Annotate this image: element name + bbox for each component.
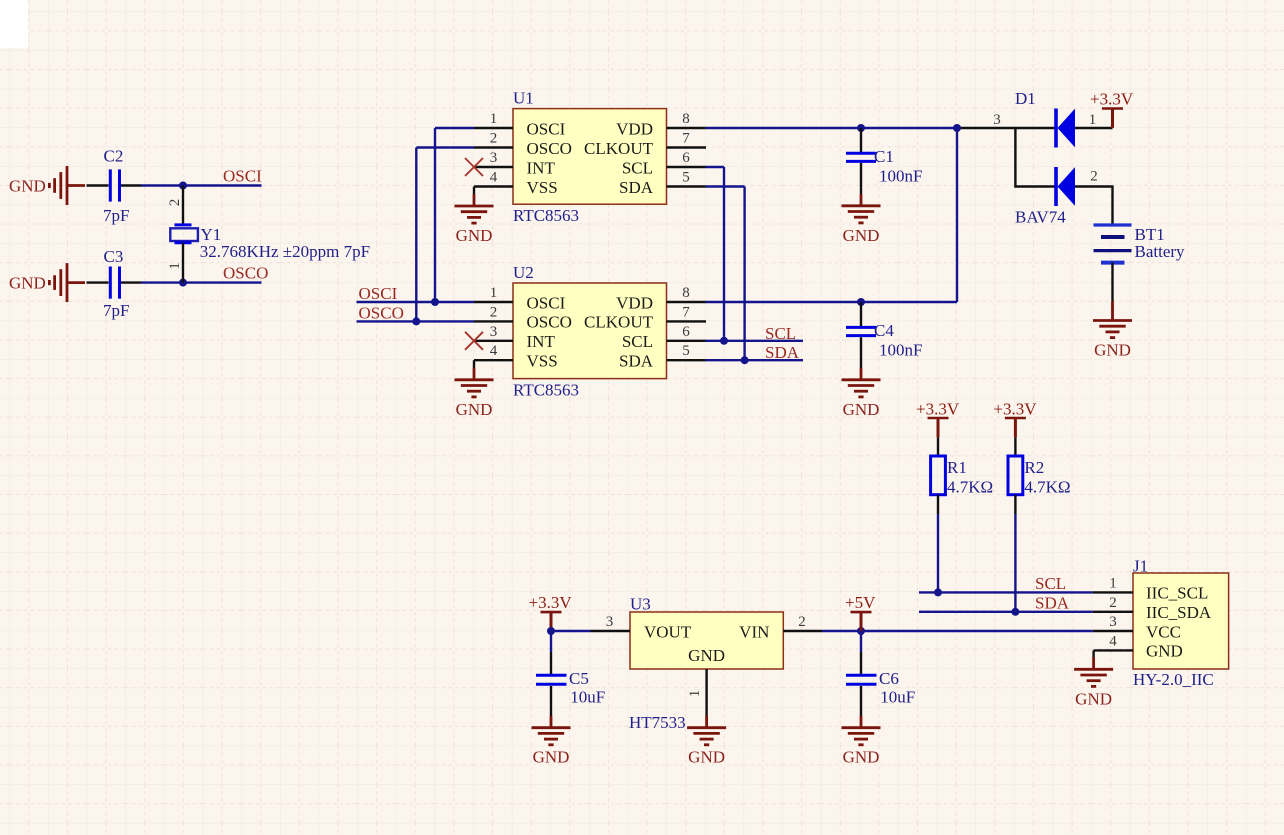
svg-text:HY-2.0_IIC: HY-2.0_IIC: [1133, 670, 1214, 689]
wire U1 pin1 to U2 OSCI: [435, 128, 474, 302]
svg-text:2: 2: [167, 199, 183, 207]
svg-text:R2: R2: [1024, 458, 1044, 477]
ground GND (BT1): [1093, 309, 1132, 360]
node junction crystal bottom: [179, 279, 187, 287]
capacitor C1: [846, 128, 922, 194]
diode D1a (top): [1056, 109, 1113, 148]
node junction C6/+5V: [857, 627, 865, 635]
svg-text:VDD: VDD: [616, 293, 653, 312]
svg-text:7: 7: [682, 131, 690, 147]
svg-text:32.768KHz ±20ppm 7pF: 32.768KHz ±20ppm 7pF: [200, 242, 370, 261]
ground GND (left of C3): [9, 263, 85, 302]
svg-text:OSCI: OSCI: [223, 167, 262, 186]
wire U2 SDA stub right: [706, 359, 804, 361]
capacitor C3: [87, 247, 142, 320]
svg-text:+3.3V: +3.3V: [993, 400, 1037, 419]
svg-text:OSCO: OSCO: [527, 313, 572, 332]
svg-text:INT: INT: [527, 158, 556, 177]
resistor R1: [931, 437, 994, 514]
svg-text:1: 1: [167, 262, 183, 270]
svg-text:OSCO: OSCO: [359, 303, 404, 322]
svg-text:U1: U1: [513, 89, 534, 108]
pin 2 U2 OSCO: [474, 304, 572, 331]
pin 7 U2 CLKOUT: [584, 304, 706, 331]
svg-text:IIC_SCL: IIC_SCL: [1146, 584, 1208, 603]
node junction U2 OSCO: [412, 317, 420, 325]
op-amp U1 body (RTC8563): [513, 89, 667, 226]
svg-text:SCL: SCL: [765, 324, 796, 343]
no-ERC cross U1 pin 3: [465, 158, 483, 176]
wire U2 OSCO: [357, 320, 475, 322]
pin 2 U1 OSCO: [474, 131, 572, 158]
pin 1 U1 OSCI: [474, 111, 566, 138]
svg-text:1: 1: [490, 285, 498, 301]
svg-text:GND: GND: [1094, 341, 1131, 360]
wire OSCO (crystal bottom): [141, 281, 262, 283]
svg-text:1: 1: [1109, 575, 1117, 591]
power +3.3V (R1): [916, 400, 960, 438]
ground GND (J1): [1074, 650, 1113, 708]
svg-text:5: 5: [682, 343, 690, 359]
svg-text:10uF: 10uF: [570, 688, 605, 707]
pin 4 U2 VSS: [474, 343, 558, 370]
svg-text:C1: C1: [874, 147, 894, 166]
node junction VDD drop: [953, 124, 961, 132]
svg-text:GND: GND: [9, 177, 46, 196]
svg-text:GND: GND: [9, 274, 46, 293]
svg-text:3: 3: [1109, 614, 1117, 630]
svg-text:OSCO: OSCO: [527, 139, 572, 158]
svg-text:U2: U2: [513, 263, 534, 282]
svg-text:U3: U3: [630, 595, 651, 614]
svg-text:GND: GND: [688, 748, 725, 767]
diode D1b (bottom): [1056, 167, 1114, 206]
svg-text:OSCI: OSCI: [359, 284, 398, 303]
svg-text:C2: C2: [104, 147, 124, 166]
wire C6 drop: [860, 631, 862, 652]
svg-text:IIC_SDA: IIC_SDA: [1146, 603, 1212, 622]
svg-text:5: 5: [682, 170, 690, 186]
svg-text:GND: GND: [533, 748, 570, 767]
svg-text:VIN: VIN: [739, 622, 769, 641]
svg-text:OSCO: OSCO: [223, 264, 268, 283]
pin 3 U2 INT: [474, 324, 555, 351]
svg-text:SCL: SCL: [622, 332, 653, 351]
wire U1 SDA to bus: [706, 185, 745, 187]
svg-text:BAV74: BAV74: [1015, 208, 1066, 227]
svg-text:GND: GND: [843, 748, 880, 767]
power +5V: [845, 593, 876, 632]
svg-text:+3.3V: +3.3V: [1090, 90, 1134, 109]
ground GND (C5): [532, 716, 571, 767]
power +3.3V (C5): [529, 593, 573, 632]
pin 7 U1 CLKOUT: [584, 131, 706, 158]
svg-text:VCC: VCC: [1146, 622, 1181, 641]
pin 3 U3 VOUT: [591, 614, 692, 641]
pin 3 U1 INT: [474, 150, 555, 177]
wire VDD vertical to U2: [956, 128, 958, 302]
svg-text:INT: INT: [527, 332, 556, 351]
wire U1 SCL to bus: [706, 166, 725, 168]
capacitor C5: [536, 652, 605, 716]
pin 2 U3 VIN: [739, 614, 822, 641]
pin 3 J1 VCC: [1093, 614, 1181, 641]
svg-text:GND: GND: [843, 400, 880, 419]
wire U1 VDD top rail: [706, 127, 958, 129]
pin 2 J1 IIC_SDA: [1093, 595, 1212, 622]
power +3.3V (D1): [1090, 90, 1134, 128]
svg-text:1: 1: [1089, 112, 1097, 128]
svg-text:SDA: SDA: [1035, 593, 1070, 612]
wire SCL vertical: [723, 167, 725, 341]
ground GND (U3): [687, 716, 726, 767]
ground GND (C1): [842, 194, 881, 245]
svg-text:7pF: 7pF: [103, 206, 129, 225]
wire OSCI (crystal top): [141, 184, 262, 186]
svg-text:2: 2: [490, 131, 498, 147]
svg-text:3: 3: [606, 614, 614, 630]
svg-text:3: 3: [993, 112, 1001, 128]
svg-text:C5: C5: [569, 669, 589, 688]
pin 6 U2 SCL: [622, 324, 706, 351]
wire D1 common branch: [1015, 128, 1056, 187]
svg-text:+3.3V: +3.3V: [916, 400, 960, 419]
wire U2 VDD: [706, 301, 958, 303]
svg-text:CLKOUT: CLKOUT: [584, 139, 654, 158]
node junction R1/SCL: [934, 588, 942, 596]
wire VIN to +5V: [822, 630, 1093, 632]
svg-text:VSS: VSS: [527, 352, 558, 371]
svg-text:2: 2: [490, 304, 498, 320]
pin 8 U2 VDD: [616, 285, 705, 312]
svg-text:6: 6: [682, 150, 690, 166]
node junction C4: [857, 298, 865, 306]
capacitor C6: [846, 652, 915, 716]
wire SCL to J1: [919, 591, 1093, 593]
svg-text:100nF: 100nF: [879, 341, 922, 360]
ground GND (U1 VSS): [455, 187, 494, 246]
svg-text:+5V: +5V: [845, 593, 876, 612]
svg-text:GND: GND: [1075, 689, 1112, 708]
node junction SDA: [741, 356, 749, 364]
IC U2 body (RTC8563): [513, 263, 667, 400]
wire C5 drop: [550, 631, 552, 652]
svg-text:4: 4: [490, 170, 498, 186]
node junction U2 OSCI: [431, 298, 439, 306]
svg-text:4.7KΩ: 4.7KΩ: [947, 477, 993, 496]
svg-text:OSCI: OSCI: [527, 293, 566, 312]
capacitor C2: [87, 147, 142, 226]
wire U2 SCL stub right: [706, 340, 804, 342]
sheet corner cutout: [0, 0, 28, 48]
svg-text:VDD: VDD: [616, 119, 653, 138]
wire R1 to SCL: [937, 514, 939, 592]
svg-text:R1: R1: [947, 458, 967, 477]
svg-text:2: 2: [798, 614, 806, 630]
wire VOUT: [551, 630, 591, 632]
svg-text:VSS: VSS: [527, 178, 558, 197]
svg-text:8: 8: [682, 111, 690, 127]
svg-text:7pF: 7pF: [103, 301, 129, 320]
resistor R2: [1008, 437, 1071, 514]
svg-text:SDA: SDA: [619, 178, 654, 197]
svg-text:8: 8: [682, 285, 690, 301]
crystal Y1: [167, 186, 370, 283]
ground GND (C4): [842, 368, 881, 419]
ground GND (left of C2): [9, 166, 85, 205]
svg-text:2: 2: [1090, 169, 1098, 185]
node junction C5: [547, 627, 555, 635]
svg-text:RTC8563: RTC8563: [513, 380, 579, 399]
no-ERC cross U2 pin 3: [465, 332, 483, 350]
pin 1 U2 OSCI: [474, 285, 566, 312]
node junction C1: [857, 124, 865, 132]
svg-text:GND: GND: [688, 646, 725, 665]
svg-text:OSCI: OSCI: [527, 119, 566, 138]
svg-text:J1: J1: [1133, 557, 1148, 576]
pin 5 U1 SDA: [619, 170, 706, 197]
svg-text:2: 2: [1109, 595, 1117, 611]
svg-text:VOUT: VOUT: [644, 622, 692, 641]
svg-text:GND: GND: [456, 400, 493, 419]
node junction R2/SDA: [1011, 608, 1019, 616]
svg-text:10uF: 10uF: [880, 688, 915, 707]
wire U1 pin2 to U2 OSCO: [416, 148, 474, 322]
svg-text:6: 6: [682, 324, 690, 340]
svg-text:GND: GND: [843, 226, 880, 245]
wire top rail to diode (black): [957, 127, 1056, 129]
pin 4 U1 VSS: [474, 170, 558, 197]
wire SDA to J1: [919, 611, 1093, 613]
node junction SCL: [720, 337, 728, 345]
svg-text:100nF: 100nF: [879, 167, 922, 186]
pin 6 U1 SCL: [622, 150, 706, 177]
svg-text:4: 4: [490, 343, 498, 359]
power +3.3V (R2): [993, 400, 1037, 438]
pin 1 J1 IIC_SCL: [1093, 575, 1209, 602]
pin 4 J1 GND: [1094, 633, 1183, 660]
svg-text:SCL: SCL: [622, 158, 653, 177]
svg-text:HT7533: HT7533: [629, 713, 686, 732]
pin 8 U1 VDD: [616, 111, 705, 138]
capacitor C4: [846, 302, 922, 368]
wire SDA vertical: [743, 187, 745, 361]
svg-text:D1: D1: [1015, 89, 1036, 108]
svg-text:4.7KΩ: 4.7KΩ: [1024, 477, 1070, 496]
IC U3 body (HT7533): [629, 595, 783, 733]
connector J1 body: [1133, 557, 1229, 690]
svg-text:+3.3V: +3.3V: [529, 593, 573, 612]
svg-text:SDA: SDA: [765, 343, 800, 362]
svg-text:1: 1: [687, 690, 703, 698]
svg-text:3: 3: [490, 324, 498, 340]
svg-text:1: 1: [490, 111, 498, 127]
pin 1 U3 GND: [687, 646, 725, 716]
svg-text:C3: C3: [104, 247, 124, 266]
svg-text:GND: GND: [1146, 642, 1183, 661]
svg-text:CLKOUT: CLKOUT: [584, 313, 654, 332]
svg-text:SDA: SDA: [619, 352, 654, 371]
svg-text:RTC8563: RTC8563: [513, 206, 579, 225]
svg-text:7: 7: [682, 304, 690, 320]
wire U2 OSCI: [357, 301, 475, 303]
svg-text:4: 4: [1109, 633, 1117, 649]
svg-text:GND: GND: [456, 226, 493, 245]
svg-text:C6: C6: [879, 669, 899, 688]
svg-text:C4: C4: [874, 321, 894, 340]
node junction crystal top: [179, 182, 187, 190]
ground GND (C6): [842, 716, 881, 767]
svg-text:Battery: Battery: [1135, 242, 1186, 261]
svg-text:3: 3: [490, 150, 498, 166]
pin 5 U2 SDA: [619, 343, 706, 370]
ground GND (U2 VSS): [455, 360, 494, 419]
battery BT1: [1094, 187, 1186, 311]
svg-text:SCL: SCL: [1035, 574, 1066, 593]
wire R2 to SDA: [1014, 514, 1016, 612]
